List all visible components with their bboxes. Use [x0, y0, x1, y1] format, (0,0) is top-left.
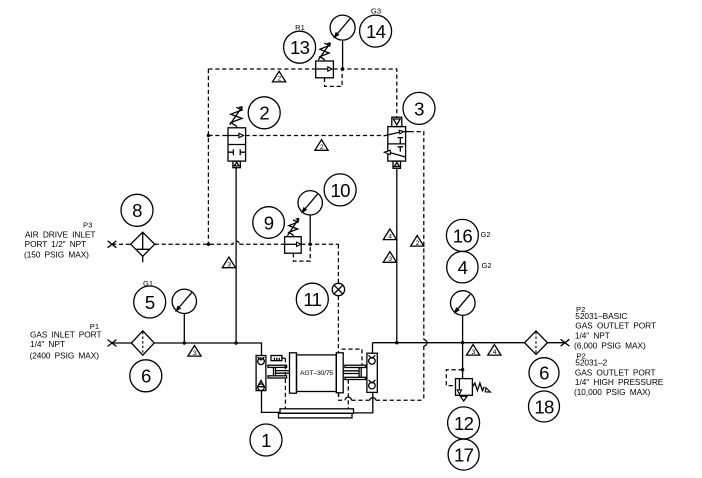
- wire gas inlet line: [112, 343, 262, 356]
- svg-text:8: 8: [132, 200, 142, 221]
- pump muffler box: [271, 356, 285, 361]
- junction dot regulator 9 output: [309, 243, 312, 246]
- svg-text:17: 17: [454, 445, 474, 466]
- wire bottom dashed air line to pump with hops: [339, 393, 424, 401]
- pump base plate: [279, 409, 354, 418]
- svg-text:3: 3: [227, 262, 231, 269]
- port P1 X symbol: [108, 340, 117, 347]
- svg-text:6: 6: [141, 366, 151, 387]
- svg-text:3: 3: [472, 349, 476, 356]
- wire right check bottom to base: [354, 392, 373, 413]
- triangle note 3 on valve3 line: [383, 252, 396, 263]
- svg-text:1: 1: [261, 430, 271, 451]
- triangle note 2 top: [273, 71, 286, 82]
- svg-text:AIR DRIVE INLET: AIR DRIVE INLET: [25, 229, 95, 239]
- wire air inlet dashed X to filter: [112, 243, 131, 245]
- junction dot gauge G2 tee: [461, 341, 464, 344]
- port P3 X symbol: [108, 241, 117, 248]
- svg-text:1/4" NPT: 1/4" NPT: [30, 339, 65, 349]
- balloon 3: [403, 92, 435, 124]
- svg-text:16: 16: [453, 225, 473, 246]
- pump cylinder: [290, 353, 344, 393]
- svg-text:2: 2: [416, 240, 420, 247]
- svg-text:18: 18: [534, 396, 554, 417]
- wire left vertical pilot dashed: [207, 69, 209, 244]
- svg-text:AGT–30/75: AGT–30/75: [300, 370, 333, 377]
- balloon 14: [360, 15, 392, 47]
- svg-text:(150 PSIG MAX): (150 PSIG MAX): [24, 250, 89, 260]
- svg-text:6: 6: [539, 363, 549, 384]
- balloon 18: [529, 391, 560, 422]
- triangle note 2 on dashed line: [411, 236, 424, 247]
- wire valve2 sense line down to gas inlet: [235, 168, 237, 343]
- regulator R1: [316, 43, 334, 78]
- balloon 5: [134, 286, 166, 318]
- wire regulator 9 output dashed: [301, 244, 338, 283]
- wire R1 feedback dashed: [325, 70, 343, 87]
- svg-text:2: 2: [259, 103, 269, 124]
- filter F6 gas inlet filter: [131, 331, 154, 355]
- relief valve 12: [456, 379, 491, 401]
- wire top horizontal dashed to R1: [208, 68, 315, 70]
- junction dot relief pilot tee: [461, 368, 464, 371]
- pump left piston: [268, 365, 290, 378]
- wire gauge branch down to relief valve: [462, 343, 464, 379]
- svg-text:GAS OUTLET PORT: GAS OUTLET PORT: [575, 367, 656, 377]
- wire dashed valve2 to valve3: [246, 135, 384, 137]
- svg-text:R1: R1: [295, 23, 305, 32]
- svg-text:9: 9: [264, 212, 274, 233]
- junction dot air tee: [207, 243, 210, 246]
- balloon 8: [121, 194, 153, 226]
- filter F8 air filter: [131, 232, 155, 262]
- svg-text:4: 4: [493, 349, 497, 356]
- valve 3: [384, 117, 410, 168]
- balloon 1 pump: [250, 424, 282, 456]
- wire R1 output dashed to valve3 pilot: [333, 69, 396, 117]
- svg-text:3: 3: [193, 350, 197, 357]
- balloon 6 gas inlet filter: [130, 360, 162, 392]
- pump assembly: left check valve body: [256, 356, 266, 391]
- svg-text:2: 2: [320, 144, 324, 151]
- svg-text:PORT 1/2" NPT: PORT 1/2" NPT: [25, 239, 87, 249]
- svg-text:GAS INLET PORT: GAS INLET PORT: [30, 330, 102, 340]
- balloon 4: [447, 252, 478, 283]
- balloon 10: [324, 174, 356, 206]
- svg-text:4: 4: [388, 233, 392, 240]
- junction dot gauge G3 tee: [341, 67, 344, 70]
- pump right check valve body: [367, 353, 377, 392]
- junction dot gauge G1 tee: [183, 341, 186, 344]
- valve 2: [223, 107, 246, 168]
- svg-text:2: 2: [278, 76, 282, 83]
- svg-text:G3: G3: [371, 7, 381, 16]
- pump right piston: [343, 365, 365, 379]
- svg-text:G2: G2: [481, 230, 491, 239]
- valve 11 circle-X speed control: [332, 283, 344, 295]
- triangle note 3 gas outlet: [467, 345, 480, 356]
- balloon 13: [284, 31, 316, 63]
- svg-text:52031–2: 52031–2: [575, 358, 607, 368]
- gauge G3: [330, 15, 355, 69]
- wire gas outlet line: [373, 342, 566, 344]
- balloon 12: [448, 407, 480, 439]
- svg-text:3: 3: [414, 98, 424, 119]
- svg-text:1/4" HIGH PRESSURE: 1/4" HIGH PRESSURE: [575, 377, 664, 387]
- svg-text:3: 3: [388, 256, 392, 263]
- regulator 9: [285, 218, 302, 253]
- junction dot valve2 pilot branch: [207, 134, 210, 137]
- svg-text:(10,000 PSIG MAX): (10,000 PSIG MAX): [574, 387, 651, 397]
- balloon 16: [446, 219, 478, 251]
- gauge 10: [298, 191, 322, 245]
- wire valve3 pilot output dashed right and down with hop over gas line: [410, 132, 424, 401]
- wire left check bottom to base: [262, 391, 281, 413]
- balloon 9: [253, 207, 285, 239]
- svg-text:52031–BASIC: 52031–BASIC: [575, 311, 627, 321]
- wire right check top to gas outlet: [372, 343, 374, 354]
- junction dot valve2 sense tee: [234, 341, 237, 344]
- balloon 17: [448, 439, 479, 470]
- pump dashed line right: [347, 380, 349, 409]
- gauge G2: [451, 291, 476, 343]
- svg-text:G2: G2: [482, 261, 492, 270]
- wire valve3 output solid down to gas outlet line: [396, 168, 398, 343]
- gauge G1: [172, 289, 196, 343]
- pump dashed pilot box top right: [342, 349, 363, 365]
- triangle note 2 middle: [315, 140, 328, 151]
- filter outlet: [525, 331, 548, 355]
- svg-text:11: 11: [303, 289, 321, 310]
- svg-text:(6,000 PSIG MAX): (6,000 PSIG MAX): [574, 341, 646, 351]
- svg-text:14: 14: [366, 21, 386, 42]
- svg-text:5: 5: [145, 292, 155, 313]
- junction dot valve3 output: [395, 341, 398, 344]
- triangle note 4 on valve3 line: [383, 229, 396, 240]
- wire dashed branch to valve 2: [208, 135, 222, 137]
- triangle note 4 gas outlet: [488, 345, 501, 356]
- balloon 11: [296, 283, 328, 315]
- svg-text:13: 13: [290, 37, 310, 58]
- balloon 2: [248, 97, 280, 129]
- balloon 6 outlet filter: [529, 358, 559, 388]
- svg-text:4: 4: [458, 257, 468, 278]
- wire dashed from valve11 down to pump: [337, 296, 339, 353]
- wire air inlet dashed filter to regulator 9 with hop over valve2 line: [155, 241, 285, 244]
- port P2 X symbol: [561, 339, 570, 346]
- pump dashed line left: [284, 358, 286, 409]
- svg-text:1/4" NPT: 1/4" NPT: [575, 330, 610, 340]
- svg-text:10: 10: [330, 180, 350, 201]
- triangle note 3 valve2 line: [222, 257, 235, 268]
- triangle note 3 gas inlet: [188, 346, 201, 357]
- wire regulator 9 feedback dashed: [293, 245, 310, 261]
- svg-text:(2400 PSIG MAX): (2400 PSIG MAX): [30, 351, 100, 361]
- svg-text:12: 12: [454, 413, 474, 434]
- svg-text:GAS OUTLET PORT: GAS OUTLET PORT: [575, 321, 656, 331]
- wire relief pilot dashed: [446, 370, 462, 386]
